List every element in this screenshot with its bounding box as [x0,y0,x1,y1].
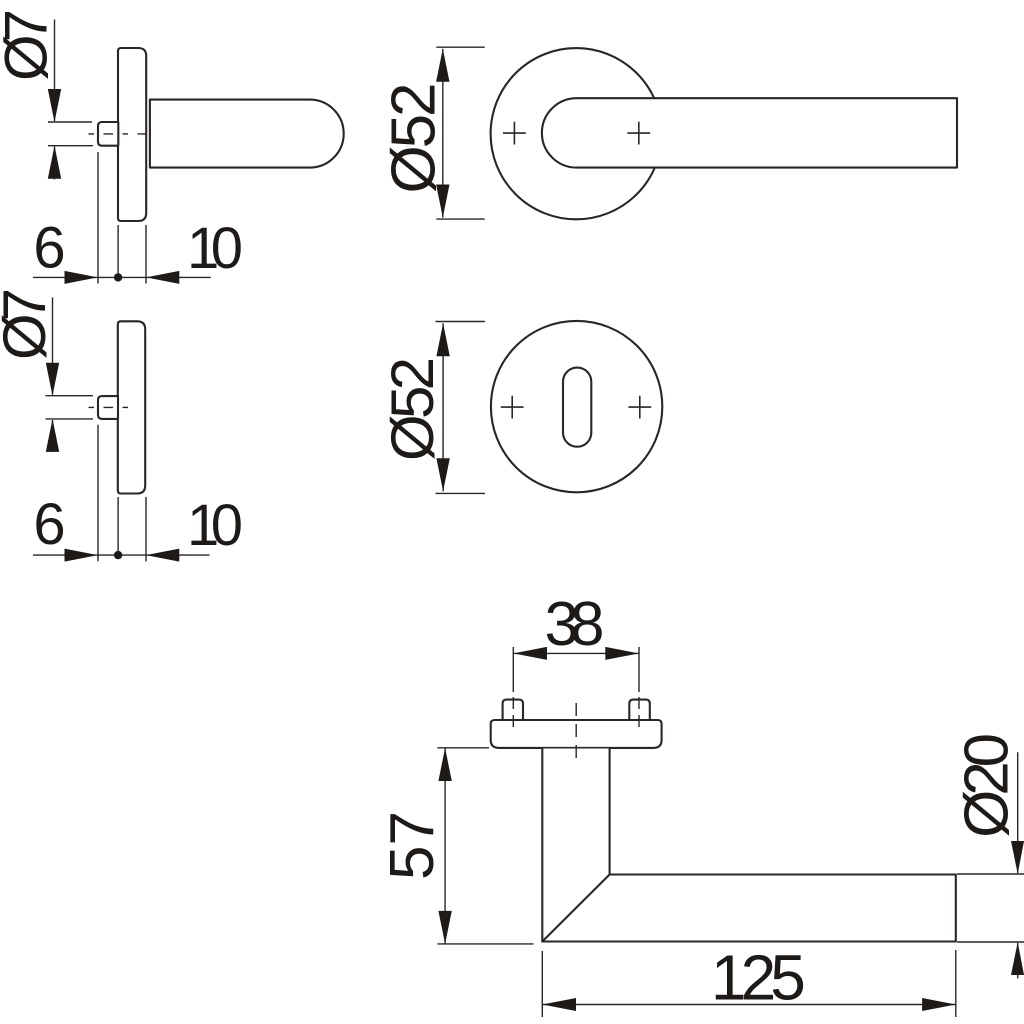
dim 10 (view A): arrow left [146,271,179,284]
svg-text:10: 10 [187,216,243,281]
dim Ø7 (view A): dimension line segments [54,20,56,122]
view B: screw position cross left [503,122,526,145]
dim Ø7 (view C): dimension line segments [52,297,54,394]
dim Ø20 (view E): dimension line [1017,752,1019,978]
svg-text:Ø20: Ø20 [953,733,1022,838]
view D: screw position cross left [501,396,524,419]
view E: mounting plate top view [491,720,662,748]
dim 125 (view E): extension lines [541,951,543,1017]
view E: right screw boss [629,700,650,720]
view A: lever handle side view, rose plate [118,48,146,221]
view B: lever front view [542,98,957,167]
view C: spindle peg side view [98,396,118,419]
view D: keyhole escutcheon front view [491,321,662,492]
dim 57 (view E): tick lines [437,747,489,749]
svg-text:Ø7: Ø7 [0,288,58,360]
dim Ø20 (view E): extension lines [957,873,1024,875]
svg-text:Ø52: Ø52 [380,83,449,194]
dim 10 (view C): arrow left [146,549,179,562]
dim 38 (view E): arrow right [605,647,639,660]
dim 57 (view E): dimension line [444,748,446,944]
view E: vertical centerline [575,703,577,763]
dim 38 (view E): extension line right [638,647,640,692]
view D: keyhole slot [563,368,591,447]
dim Ø52 (view B): arrow up [436,49,449,82]
dim Ø20 (view E): arrow up [1011,942,1024,975]
dim Ø52 (view D): tick lines [436,321,486,323]
dim Ø52 (view B): tick lines [436,46,484,48]
dim 6/10 (view A): dimension line [33,276,211,278]
view B: screw position cross right [627,122,650,145]
dim 6 (view C): arrow right [65,549,98,562]
view D: screw position cross right [628,396,651,419]
dim 6/10 (view C): dimension line [33,554,210,556]
dim 38 (view E): arrow left [513,647,547,660]
dim 57 (view E): arrow up [438,748,451,781]
svg-text:125: 125 [711,942,806,1014]
dim 6/10 (view A): junction dot [114,273,122,281]
dim Ø52 (view B): arrow down [436,185,449,218]
view A: centerline through spindle [89,133,157,135]
dim Ø20 (view E): arrow down [1011,841,1024,874]
view E: left screw boss [503,700,523,720]
dim 125 (view E): arrow left [542,998,576,1011]
dim Ø52 (view D): arrow up [436,323,449,356]
dim Ø7 (view A): arrow down [48,89,61,122]
dim 125 (view E): arrow right [922,998,956,1011]
dim Ø52 (view B): dimension line [442,49,444,218]
dim 38 (view E): extension line left [512,647,514,692]
dim 57 (view E): arrow down [438,911,451,944]
dim Ø52 (view D): dimension line [442,323,444,491]
svg-text:Ø7: Ø7 [0,9,60,81]
dim Ø7 (view A): arrow up [48,146,61,179]
view A: lever grip side view [150,100,344,168]
svg-text:38: 38 [545,590,605,659]
view E: mitre edge of handle bend [542,875,609,942]
dim Ø7 (view C): extension lines [46,395,94,397]
dim 6 (view A): arrow right [65,271,98,284]
view B: round rose front view [491,48,662,219]
dim 6/10 (view C): extension lines [97,425,99,561]
svg-text:10: 10 [187,493,243,558]
svg-text:Ø52: Ø52 [379,357,446,461]
dim 38 (view E): dimension line [513,652,639,654]
dim 6/10 (view A): extension lines [97,152,99,284]
svg-text:6: 6 [33,492,65,557]
dim Ø7 (view C): arrow up [46,419,59,452]
dim Ø7 (view A): extension lines [48,121,92,123]
dim 6/10 (view C): junction dot [114,551,122,559]
svg-text:6: 6 [33,215,65,280]
svg-text:57: 57 [378,811,447,880]
view E: handle neck and lever top view [542,749,956,942]
dim Ø7 (view C): arrow down [46,363,59,396]
dim 125 (view E): dimension line [542,1004,956,1006]
view C: centerline through spindle [89,406,132,408]
view A: spindle peg side view [98,122,118,146]
view C: rose plate side view (second row) [118,321,145,493]
dim Ø52 (view D): arrow down [436,458,449,491]
